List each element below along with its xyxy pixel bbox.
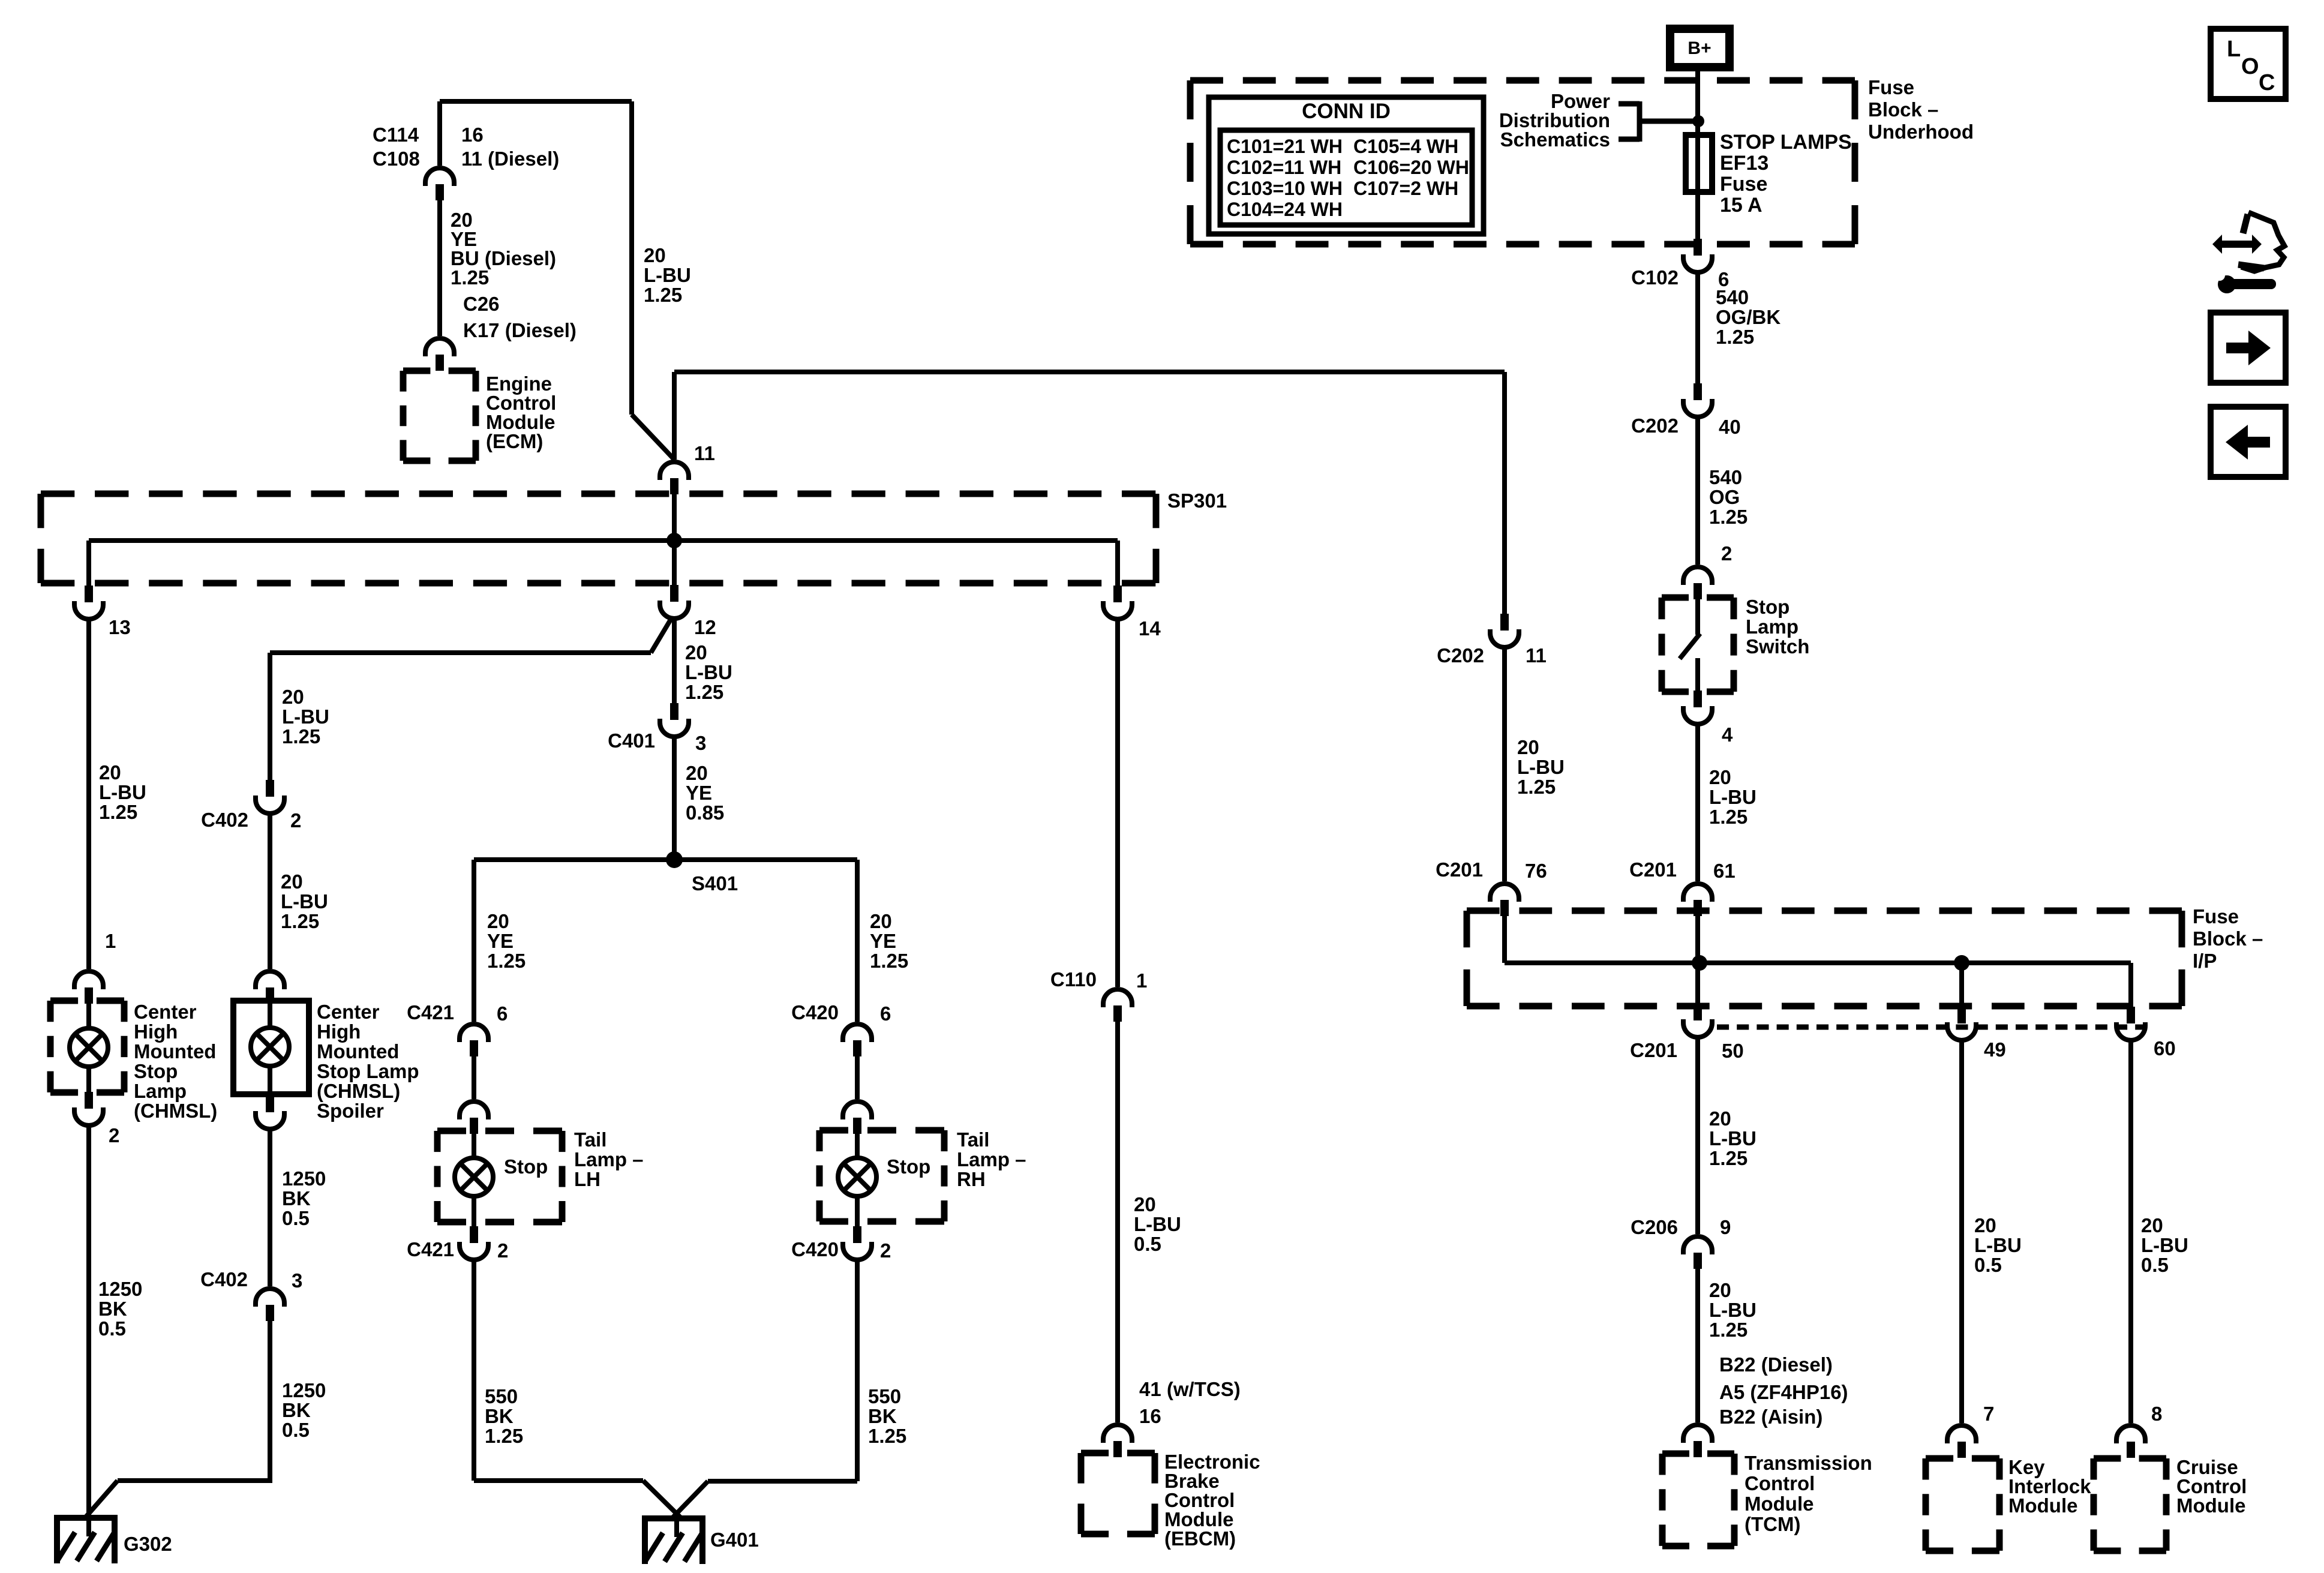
svg-text:0.5: 0.5 <box>282 1207 310 1229</box>
svg-text:Lamp: Lamp <box>134 1080 187 1102</box>
svg-text:Stop: Stop <box>1746 596 1789 618</box>
lamp box tail LH <box>437 1128 562 1134</box>
svg-text:41 (w/TCS): 41 (w/TCS) <box>1139 1378 1241 1400</box>
svg-text:Fuse: Fuse <box>2193 905 2239 927</box>
svg-text:L-BU: L-BU <box>1134 1213 1181 1235</box>
lamp box tail RH <box>819 1127 944 1134</box>
svg-text:C421: C421 <box>407 1001 454 1023</box>
svg-text:1.25: 1.25 <box>1709 806 1747 828</box>
wire into spoiler lamp <box>268 1001 272 1029</box>
connector 14 <box>1113 586 1122 602</box>
svg-text:LH: LH <box>574 1168 600 1190</box>
junction dot power dist <box>1692 115 1704 127</box>
svg-text:C202: C202 <box>1631 415 1679 437</box>
svg-text:L-BU: L-BU <box>1709 786 1756 808</box>
svg-text:Lamp: Lamp <box>1746 616 1798 638</box>
svg-text:L-BU: L-BU <box>282 706 329 728</box>
wire C401 to S401 <box>672 736 677 860</box>
junction dot SP301 <box>666 533 682 548</box>
lamp CHMSL spoiler <box>251 1028 289 1066</box>
svg-text:20: 20 <box>2141 1214 2163 1236</box>
wire C202-11 drop <box>1502 372 1507 614</box>
svg-text:L-BU: L-BU <box>1974 1234 2022 1256</box>
wire C402-2 to spoiler lamp <box>268 812 272 969</box>
svg-text:C105=4 WH: C105=4 WH <box>1353 136 1458 157</box>
svg-text:G401: G401 <box>710 1529 759 1551</box>
wire C202-11 to C201-76 <box>1502 646 1507 881</box>
svg-text:C420: C420 <box>791 1001 839 1023</box>
icon right arrow <box>2226 331 2271 365</box>
svg-text:Tail: Tail <box>574 1128 606 1151</box>
svg-text:SP301: SP301 <box>1167 490 1227 512</box>
wire conn12 to C401 <box>672 617 677 703</box>
wire SP301 bus <box>89 538 1118 543</box>
svg-text:C201: C201 <box>1629 858 1677 881</box>
svg-text:1.25: 1.25 <box>644 284 682 306</box>
svg-text:1.25: 1.25 <box>1716 326 1754 348</box>
connector spoiler top <box>256 971 284 989</box>
connector 12 <box>670 585 678 602</box>
svg-text:1.25: 1.25 <box>1709 1147 1747 1169</box>
svg-text:Stop: Stop <box>504 1155 548 1178</box>
ground G302 <box>54 1515 118 1521</box>
svg-text:Stop: Stop <box>134 1060 178 1082</box>
wire SP301 internal vertical <box>672 493 677 585</box>
connector line C201 row <box>1717 1025 2148 1030</box>
svg-text:C: C <box>2259 70 2275 95</box>
wire out of RH lamp <box>855 1194 860 1226</box>
svg-text:Module: Module <box>1744 1493 1813 1515</box>
junction dot bus C201-61 <box>1692 955 1707 971</box>
wire into RH lamp <box>855 1131 860 1160</box>
svg-text:540: 540 <box>1716 286 1749 308</box>
svg-text:(ECM): (ECM) <box>486 430 543 452</box>
svg-text:9: 9 <box>1720 1216 1731 1238</box>
wire 49 to key interlock <box>1959 1039 1964 1423</box>
connector C202 pin11 <box>1500 614 1509 631</box>
fuse block underhood box <box>1190 77 1855 84</box>
svg-text:6: 6 <box>497 1002 508 1025</box>
svg-text:B22 (Diesel): B22 (Diesel) <box>1719 1353 1833 1376</box>
wire C420 to lamp conn <box>855 1054 860 1099</box>
svg-text:1.25: 1.25 <box>485 1425 523 1447</box>
svg-text:C104=24 WH: C104=24 WH <box>1227 199 1343 220</box>
icon left arrow <box>2226 425 2270 460</box>
connector tail RH top <box>843 1101 872 1119</box>
svg-text:C102: C102 <box>1631 266 1679 289</box>
svg-text:B22 (Aisin): B22 (Aisin) <box>1719 1406 1822 1428</box>
svg-text:20: 20 <box>1709 1279 1731 1301</box>
connector C421 pin6 <box>460 1024 488 1042</box>
svg-text:Schematics: Schematics <box>1500 128 1610 151</box>
svg-text:BK: BK <box>868 1405 897 1427</box>
wire SP301 left drop <box>86 541 91 586</box>
svg-text:C101=21 WH: C101=21 WH <box>1227 136 1343 157</box>
svg-text:YE: YE <box>686 782 712 804</box>
svg-text:550: 550 <box>485 1385 518 1407</box>
svg-text:O: O <box>2241 54 2259 79</box>
svg-text:20: 20 <box>281 870 303 893</box>
wire out of LH lamp <box>472 1194 476 1226</box>
wire C402-3 to G302 <box>268 1320 272 1481</box>
module TCM box <box>1662 1451 1734 1457</box>
svg-text:20: 20 <box>282 686 304 708</box>
svg-text:60: 60 <box>2154 1037 2176 1059</box>
svg-text:(CHMSL): (CHMSL) <box>134 1100 217 1122</box>
svg-text:Fuse: Fuse <box>1720 173 1767 196</box>
connector C201 pin50 <box>1694 1004 1702 1020</box>
svg-text:14: 14 <box>1139 617 1161 640</box>
svg-text:C402: C402 <box>201 809 248 831</box>
wire into LH lamp <box>472 1131 476 1160</box>
svg-text:Underhood: Underhood <box>1868 121 1974 143</box>
svg-text:50: 50 <box>1722 1040 1744 1062</box>
connector tail LH top <box>460 1101 488 1119</box>
svg-text:16: 16 <box>461 124 484 146</box>
svg-text:20: 20 <box>1709 1107 1731 1130</box>
svg-text:Mounted: Mounted <box>317 1040 399 1062</box>
splice box SP301 <box>41 491 1156 497</box>
wire RH to G401 <box>855 1259 860 1481</box>
connector TCM pin <box>1683 1425 1712 1443</box>
svg-text:3: 3 <box>292 1269 302 1292</box>
svg-text:1.25: 1.25 <box>282 725 320 748</box>
svg-text:20: 20 <box>1517 736 1539 758</box>
connector CHMSL pin2 <box>85 1092 93 1109</box>
svg-text:20: 20 <box>1134 1193 1156 1215</box>
svg-text:20: 20 <box>644 244 666 266</box>
svg-text:C107=2 WH: C107=2 WH <box>1353 178 1458 199</box>
wire C110 to EBCM <box>1115 1020 1120 1422</box>
power feed B+ box <box>1670 29 1730 67</box>
svg-text:L-BU: L-BU <box>1709 1127 1756 1149</box>
svg-text:EF13: EF13 <box>1720 152 1768 175</box>
svg-text:S401: S401 <box>692 872 738 894</box>
svg-text:Mounted: Mounted <box>134 1040 216 1062</box>
svg-text:YE: YE <box>870 930 896 952</box>
svg-text:C102=11 WH: C102=11 WH <box>1227 157 1341 178</box>
svg-text:0.5: 0.5 <box>282 1419 310 1441</box>
wire S401 right drop <box>855 860 860 1022</box>
svg-text:2: 2 <box>880 1239 891 1262</box>
wire conn12 diagonal to C402 branch <box>651 619 671 653</box>
connector key interlock pin7 <box>1947 1425 1976 1443</box>
svg-text:L-BU: L-BU <box>2141 1234 2188 1256</box>
svg-text:20: 20 <box>1709 766 1731 788</box>
connector C110 pin1 <box>1103 989 1132 1007</box>
svg-text:Center: Center <box>134 1001 197 1023</box>
connector C201 pin76 <box>1490 884 1519 902</box>
svg-text:16: 16 <box>1139 1405 1161 1427</box>
svg-text:(TCM): (TCM) <box>1744 1513 1800 1535</box>
wire G401 left elbow <box>474 1478 643 1483</box>
module key interlock box <box>1926 1455 1999 1462</box>
connector C202 pin40 <box>1694 383 1702 400</box>
svg-text:Fuse: Fuse <box>1868 76 1914 98</box>
svg-text:YE: YE <box>487 930 514 952</box>
svg-text:Control: Control <box>1744 1472 1815 1494</box>
svg-text:1250: 1250 <box>282 1379 326 1401</box>
svg-text:61: 61 <box>1713 860 1736 882</box>
svg-text:1.25: 1.25 <box>1709 506 1747 528</box>
wire fuse IP bus <box>1505 960 2131 965</box>
connector C26/K17 <box>425 338 454 356</box>
svg-text:40: 40 <box>1719 416 1741 438</box>
wire C421 to lamp conn <box>472 1054 476 1099</box>
svg-text:20: 20 <box>685 641 707 664</box>
connector tail LH bottom <box>470 1226 478 1243</box>
connector spoiler bottom <box>266 1095 274 1112</box>
module EBCM box <box>1081 1450 1155 1457</box>
wire spoiler to C402-3 <box>268 1128 272 1286</box>
svg-text:C110: C110 <box>1050 968 1097 990</box>
svg-text:1: 1 <box>1136 969 1147 992</box>
svg-text:20: 20 <box>686 762 708 784</box>
svg-text:A5 (ZF4HP16): A5 (ZF4HP16) <box>1719 1381 1848 1403</box>
svg-text:BK: BK <box>485 1405 514 1427</box>
wire C202 to switch <box>1695 416 1700 565</box>
svg-text:Stop: Stop <box>887 1155 930 1178</box>
svg-text:BK: BK <box>98 1298 127 1320</box>
wire 49 drop <box>1959 963 1964 1007</box>
svg-text:C202: C202 <box>1437 644 1484 667</box>
wire B+ to fuse <box>1695 67 1700 239</box>
svg-text:Block –: Block – <box>2193 927 2263 950</box>
svg-text:C108: C108 <box>373 148 420 170</box>
icon harness double arrow <box>2212 235 2262 254</box>
connector fuse IP pin60 <box>2127 1007 2135 1023</box>
svg-text:12: 12 <box>694 616 716 638</box>
wire C114 branch top U-shape <box>440 99 632 104</box>
svg-text:1.25: 1.25 <box>868 1425 906 1447</box>
svg-text:1.25: 1.25 <box>451 266 489 289</box>
svg-text:0.85: 0.85 <box>686 801 724 824</box>
svg-text:High: High <box>134 1020 178 1043</box>
svg-text:1.25: 1.25 <box>281 910 319 932</box>
bracket power distribution <box>1619 101 1640 107</box>
wire diagonal into node 11 <box>632 415 674 460</box>
svg-text:11: 11 <box>1526 644 1547 667</box>
connector C206 pin9 <box>1683 1236 1712 1254</box>
wire 60 to cruise <box>2128 1039 2133 1423</box>
connector fuse IP pin49 <box>1957 1007 1966 1023</box>
svg-text:OG: OG <box>1709 486 1740 508</box>
svg-text:C114: C114 <box>373 124 419 146</box>
wire CHMSL to G302 <box>86 1124 91 1515</box>
wire G302 elbow <box>118 1478 272 1483</box>
svg-text:STOP LAMPS: STOP LAMPS <box>1720 131 1852 154</box>
svg-text:7: 7 <box>1983 1403 1994 1425</box>
svg-text:L-BU: L-BU <box>99 781 146 803</box>
svg-text:K17 (Diesel): K17 (Diesel) <box>463 319 577 341</box>
svg-text:Spoiler: Spoiler <box>317 1100 384 1122</box>
fuse block IP box <box>1467 908 2182 914</box>
svg-text:1.25: 1.25 <box>487 950 526 972</box>
wire SP301 right drop <box>1115 541 1120 586</box>
svg-text:1250: 1250 <box>282 1167 326 1190</box>
wire horizontal to C402 <box>270 650 651 655</box>
svg-text:L-BU: L-BU <box>281 890 328 912</box>
svg-text:C206: C206 <box>1631 1216 1678 1238</box>
connector tail RH bottom <box>853 1226 861 1243</box>
ground G401 <box>642 1515 705 1521</box>
fuse STOP LAMPS EF13 <box>1686 135 1712 192</box>
svg-text:Center: Center <box>317 1001 380 1023</box>
connector C401 pin3 <box>670 703 678 720</box>
svg-text:I/P: I/P <box>2193 950 2217 972</box>
wire C201-76 drop to bus <box>1502 915 1507 963</box>
svg-text:20: 20 <box>487 910 509 932</box>
svg-text:6: 6 <box>880 1002 891 1025</box>
connector switch pin2 <box>1683 567 1712 585</box>
module cruise box <box>2094 1455 2166 1462</box>
svg-text:Stop Lamp: Stop Lamp <box>317 1060 419 1082</box>
svg-text:15 A: 15 A <box>1720 194 1762 217</box>
svg-text:L-BU: L-BU <box>1709 1299 1756 1321</box>
connector C402 pin2 <box>266 780 274 797</box>
wire C102 to C202 <box>1695 271 1700 383</box>
svg-text:0.5: 0.5 <box>1974 1254 2002 1276</box>
icon right arrow box <box>2211 313 2286 383</box>
svg-text:1: 1 <box>105 930 116 952</box>
switch lever <box>1695 598 1700 635</box>
lamp tail LH stop <box>455 1158 493 1196</box>
svg-text:49: 49 <box>1984 1038 2006 1061</box>
svg-text:Block –: Block – <box>1868 98 1938 121</box>
wire 14 to C110 <box>1115 618 1120 987</box>
svg-text:C201: C201 <box>1630 1039 1677 1061</box>
svg-text:1.25: 1.25 <box>1709 1319 1747 1341</box>
wire into CHMSL lamp <box>86 1001 91 1030</box>
wire 60 drop <box>2128 963 2133 1007</box>
icon LOC box <box>2211 29 2286 99</box>
icon left arrow box <box>2211 407 2286 477</box>
svg-text:13: 13 <box>109 616 131 638</box>
connector C402 pin3 <box>256 1289 284 1307</box>
svg-text:C106=20 WH: C106=20 WH <box>1353 157 1469 178</box>
svg-text:(EBCM): (EBCM) <box>1164 1527 1236 1550</box>
wire C201-61 through bus <box>1695 915 1700 1004</box>
connector C420 pin6 <box>843 1024 872 1042</box>
svg-text:2: 2 <box>1721 542 1732 565</box>
svg-text:0.5: 0.5 <box>2141 1254 2169 1276</box>
svg-text:OG/BK: OG/BK <box>1716 306 1780 328</box>
svg-text:L-BU: L-BU <box>644 264 691 286</box>
wire G401 right elbow <box>708 1479 857 1484</box>
svg-text:1250: 1250 <box>98 1278 142 1300</box>
svg-text:CONN ID: CONN ID <box>1302 100 1391 123</box>
svg-text:Module: Module <box>2176 1494 2245 1517</box>
svg-text:C401: C401 <box>608 730 655 752</box>
wire 13 to CHMSL <box>86 618 91 969</box>
switch box stop lamp <box>1662 595 1734 601</box>
svg-text:1.25: 1.25 <box>1517 776 1556 798</box>
module ECM box <box>403 368 476 374</box>
connector EBCM pin <box>1103 1425 1132 1443</box>
wire out of CHMSL lamp <box>86 1065 91 1092</box>
svg-text:Lamp –: Lamp – <box>957 1148 1026 1170</box>
connector cruise pin8 <box>2116 1425 2145 1443</box>
svg-text:11 (Diesel): 11 (Diesel) <box>461 148 559 170</box>
wire C201-50 to C206 <box>1695 1036 1700 1234</box>
svg-text:1.25: 1.25 <box>99 801 137 823</box>
icon harness outline <box>2241 212 2284 271</box>
svg-text:L-BU: L-BU <box>685 661 732 683</box>
svg-text:C421: C421 <box>407 1238 454 1260</box>
lamp box CHMSL spoiler <box>233 1001 309 1094</box>
wire LH to G401 <box>472 1259 476 1481</box>
svg-text:BK: BK <box>282 1187 311 1209</box>
svg-text:20: 20 <box>870 910 892 932</box>
svg-text:2: 2 <box>109 1124 119 1146</box>
svg-text:B+: B+ <box>1688 38 1711 58</box>
wire C114 to C26 <box>437 198 442 336</box>
svg-text:BK: BK <box>282 1399 311 1421</box>
connector 11 at SP301 <box>660 462 689 480</box>
svg-text:4: 4 <box>1722 724 1733 746</box>
svg-text:3: 3 <box>695 732 706 754</box>
svg-text:Tail: Tail <box>957 1128 989 1151</box>
svg-text:C420: C420 <box>791 1238 839 1260</box>
wire switch to C201-61 <box>1695 723 1700 881</box>
svg-text:L-BU: L-BU <box>1517 756 1565 778</box>
wire node11 to C202 horizontal <box>674 370 1505 374</box>
svg-text:0.5: 0.5 <box>1134 1233 1161 1255</box>
svg-text:2: 2 <box>497 1239 508 1262</box>
svg-text:C26: C26 <box>463 293 500 315</box>
junction dot bus 49 <box>1954 955 1969 971</box>
connector C114/C108 <box>425 168 454 186</box>
connector C102 pin6 <box>1694 239 1702 256</box>
lamp CHMSL <box>70 1028 108 1067</box>
connector CHMSL pin1 <box>74 971 103 989</box>
svg-text:Module: Module <box>2008 1494 2077 1517</box>
lamp tail RH stop <box>838 1158 876 1196</box>
svg-text:C103=10 WH: C103=10 WH <box>1227 178 1343 199</box>
svg-text:1.25: 1.25 <box>685 681 723 703</box>
svg-text:11: 11 <box>694 442 715 464</box>
connector 13 <box>85 586 93 602</box>
connector switch pin4 <box>1694 691 1702 707</box>
svg-text:G302: G302 <box>124 1533 172 1555</box>
svg-text:8: 8 <box>2151 1403 2162 1425</box>
svg-text:2: 2 <box>290 809 301 831</box>
wire out of spoiler lamp <box>268 1064 272 1095</box>
svg-text:High: High <box>317 1020 361 1043</box>
svg-text:0.5: 0.5 <box>98 1317 126 1340</box>
wire C206 to TCM <box>1695 1268 1700 1422</box>
svg-text:Lamp –: Lamp – <box>574 1148 644 1170</box>
svg-text:20: 20 <box>99 761 121 784</box>
svg-text:550: 550 <box>868 1385 901 1407</box>
lamp box CHMSL <box>50 998 124 1004</box>
conn id table frame <box>1209 97 1484 234</box>
svg-text:C402: C402 <box>200 1268 248 1290</box>
connector C201 pin61 <box>1683 884 1712 902</box>
svg-text:540: 540 <box>1709 466 1742 488</box>
icon wrench <box>2218 275 2236 293</box>
svg-text:(CHMSL): (CHMSL) <box>317 1080 400 1102</box>
svg-text:L: L <box>2227 37 2241 62</box>
wire S401 left drop <box>472 860 476 1022</box>
svg-text:76: 76 <box>1525 860 1547 882</box>
svg-text:1.25: 1.25 <box>870 950 908 972</box>
wire S401 bus <box>474 857 857 862</box>
svg-text:Transmission: Transmission <box>1744 1452 1872 1474</box>
svg-text:Switch: Switch <box>1746 635 1809 658</box>
svg-text:RH: RH <box>957 1168 986 1190</box>
svg-text:C201: C201 <box>1436 858 1483 881</box>
